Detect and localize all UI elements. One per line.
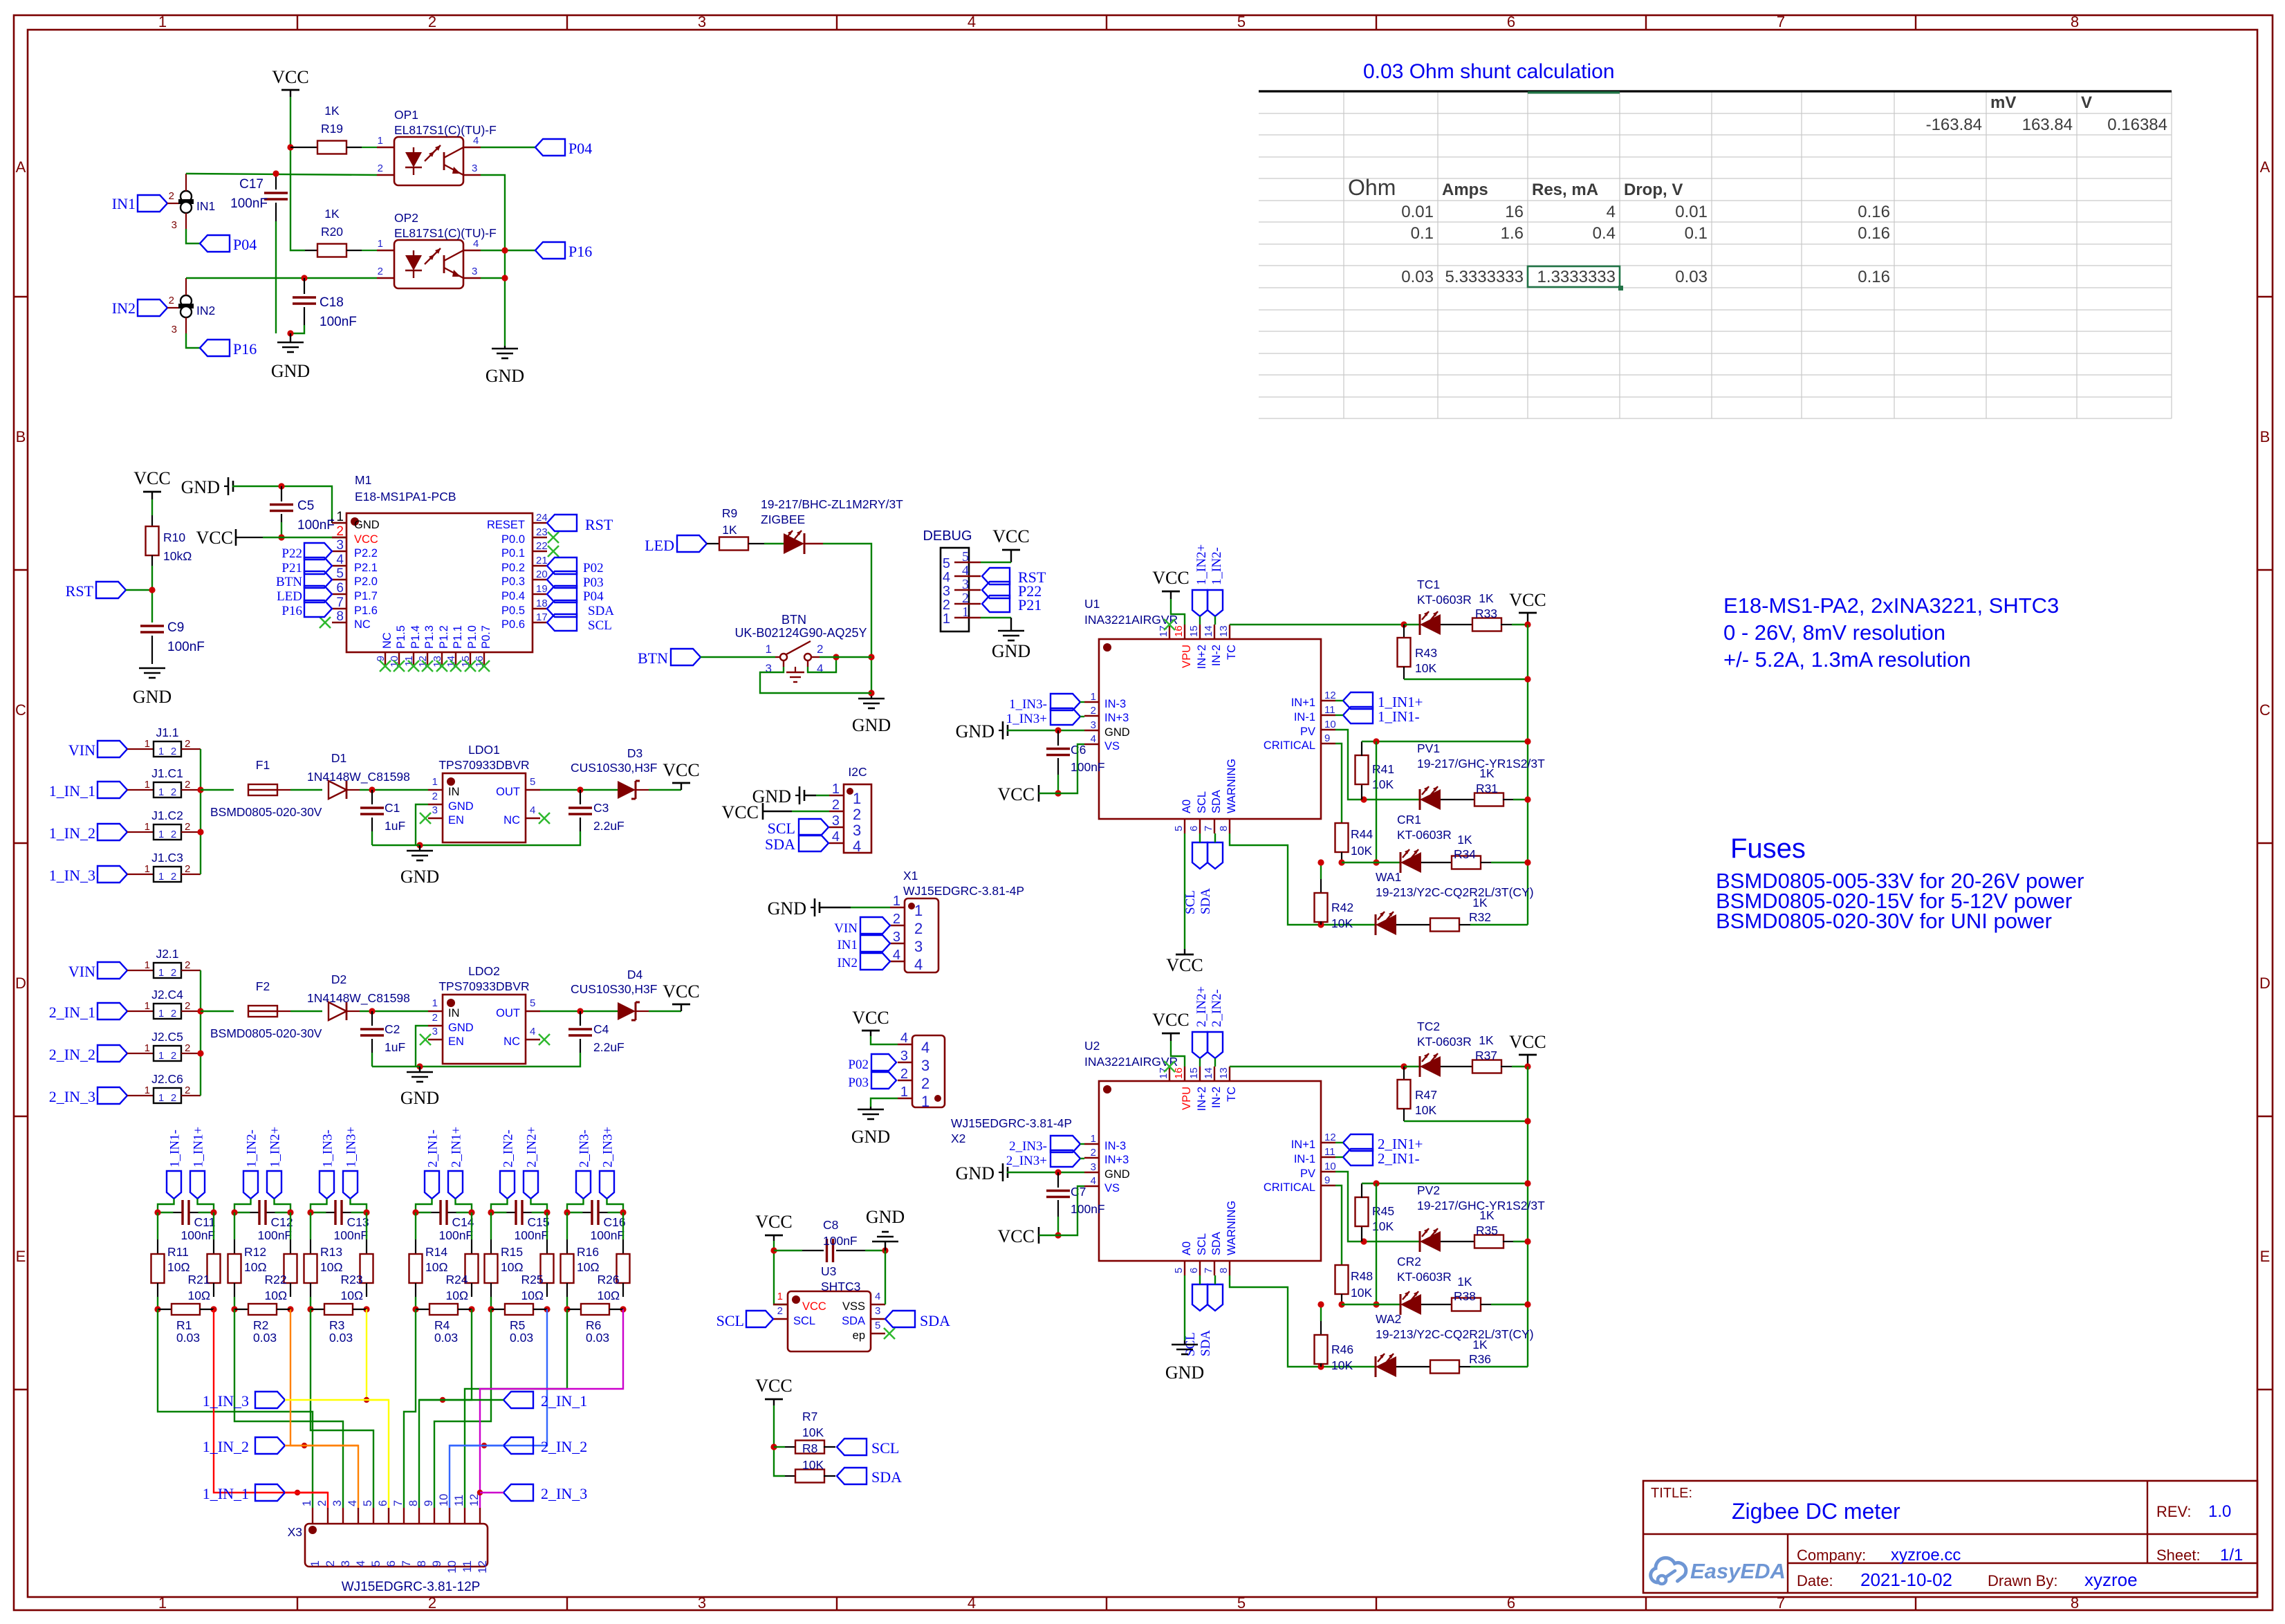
svg-text:2: 2 — [185, 821, 190, 833]
svg-text:R36: R36 — [1469, 1352, 1491, 1366]
svg-text:2: 2 — [428, 1594, 436, 1612]
svg-text:SDA: SDA — [920, 1312, 950, 1329]
svg-text:3: 3 — [893, 930, 900, 945]
svg-text:16: 16 — [1505, 203, 1524, 221]
svg-text:R33: R33 — [1475, 607, 1497, 620]
svg-text:B: B — [2260, 428, 2270, 445]
power flag VCC ladder U1 — [1509, 590, 1546, 628]
svg-text:SCL: SCL — [1196, 1233, 1208, 1255]
svg-text:1: 1 — [900, 1085, 908, 1100]
svg-text:1: 1 — [432, 997, 438, 1009]
diode D3 — [571, 746, 681, 799]
svg-text:C1: C1 — [385, 801, 400, 815]
svg-text:5: 5 — [1237, 13, 1246, 30]
svg-text:3: 3 — [432, 1026, 438, 1037]
svg-text:P16: P16 — [568, 243, 592, 260]
svg-text:GND: GND — [992, 641, 1030, 661]
wire WARNING net U1 — [1230, 833, 1375, 928]
svg-text:J1.C2: J1.C2 — [151, 809, 183, 822]
jumper IN1 — [169, 174, 216, 231]
capacitor C11 — [154, 1200, 216, 1242]
svg-text:TC2: TC2 — [1417, 1019, 1440, 1033]
svg-text:2: 2 — [817, 643, 823, 656]
svg-text:R4: R4 — [434, 1318, 450, 1332]
svg-text:1.0: 1.0 — [2208, 1502, 2231, 1521]
notes text — [1723, 593, 2059, 672]
svg-text:CR1: CR1 — [1397, 813, 1421, 827]
svg-text:1: 1 — [158, 871, 164, 883]
port 1_IN_3 — [203, 1392, 389, 1410]
svg-text:Sheet:: Sheet: — [2156, 1547, 2201, 1564]
port IN1 — [112, 195, 181, 212]
svg-text:100nF: 100nF — [181, 1228, 216, 1242]
svg-text:11: 11 — [1324, 704, 1335, 716]
wire TC net U1 — [1230, 621, 1407, 627]
resistor R23 — [341, 1212, 373, 1302]
svg-text:10: 10 — [1324, 1161, 1336, 1172]
svg-text:2: 2 — [316, 1500, 329, 1506]
ports 1_IN3- 1_IN3+ — [311, 1127, 367, 1212]
svg-text:1: 1 — [145, 1085, 150, 1096]
ports SCL SDA U1 — [1183, 833, 1223, 914]
svg-text:CUS10S30,H3F: CUS10S30,H3F — [571, 982, 657, 996]
svg-text:NC: NC — [354, 618, 371, 631]
svg-text:X1: X1 — [903, 869, 918, 883]
port IN1 X1 — [837, 935, 890, 952]
svg-text:100nF: 100nF — [1071, 1202, 1105, 1216]
svg-text:1_IN_3: 1_IN_3 — [203, 1392, 249, 1410]
svg-text:2: 2 — [893, 912, 900, 927]
svg-text:BSMD0805-020-30V for UNI power: BSMD0805-020-30V for UNI power — [1716, 909, 2052, 933]
LED CR1 KT-0603R — [1342, 813, 1452, 873]
wire output node — [540, 1008, 618, 1014]
svg-text:R37: R37 — [1475, 1049, 1497, 1062]
resistor R33 — [1472, 591, 1528, 631]
svg-text:LED: LED — [277, 589, 302, 604]
svg-text:WA2: WA2 — [1376, 1312, 1401, 1326]
svg-text:2.2uF: 2.2uF — [593, 1040, 625, 1054]
svg-text:SCL: SCL — [768, 820, 795, 837]
svg-text:7: 7 — [1777, 1594, 1785, 1612]
svg-text:PV: PV — [1300, 726, 1315, 738]
LED WA2 19-213 — [1376, 1312, 1534, 1377]
resistor R15 — [485, 1212, 524, 1309]
connector J2.C4 — [49, 988, 201, 1021]
svg-text:GND: GND — [851, 1127, 890, 1147]
svg-text:J1.C1: J1.C1 — [151, 766, 183, 780]
svg-text:OUT: OUT — [496, 1007, 520, 1019]
port P04 lower — [200, 235, 257, 253]
fuse F2 — [210, 979, 322, 1040]
svg-text:10kΩ: 10kΩ — [163, 549, 192, 563]
shunt resistor R3 — [307, 1304, 369, 1345]
svg-text:GND: GND — [448, 1022, 474, 1034]
svg-text:P1.3: P1.3 — [423, 625, 436, 649]
ports 2_IN2+ 2_IN2- — [1192, 986, 1224, 1067]
svg-text:4: 4 — [832, 829, 840, 845]
power flag VCC DEBUG — [981, 526, 1030, 562]
svg-text:0.03: 0.03 — [1675, 268, 1708, 286]
LED PV1 19-217 — [1417, 741, 1545, 810]
svg-text:IN2: IN2 — [196, 304, 215, 317]
svg-text:3: 3 — [921, 1057, 929, 1074]
svg-text:GND: GND — [271, 361, 310, 381]
svg-text:4: 4 — [1607, 203, 1616, 221]
wire to fuse F2 — [201, 1011, 234, 1012]
capacitor C5 — [270, 486, 335, 541]
gnd flag U1 — [956, 721, 1084, 741]
svg-text:OP2: OP2 — [394, 211, 418, 225]
svg-text:IN+1: IN+1 — [1291, 1138, 1315, 1151]
svg-text:1: 1 — [158, 746, 164, 757]
svg-text:CR2: CR2 — [1397, 1255, 1421, 1268]
svg-text:2_IN_3: 2_IN_3 — [541, 1485, 587, 1502]
svg-text:P22: P22 — [281, 546, 302, 561]
no-connect marks M1 — [320, 532, 559, 672]
svg-text:2: 2 — [171, 1008, 176, 1019]
svg-text:1_IN3+: 1_IN3+ — [1006, 712, 1047, 726]
wire VCC to R19/R20 — [290, 97, 305, 250]
svg-text:2021-10-02: 2021-10-02 — [1860, 1569, 1952, 1590]
svg-text:1: 1 — [962, 605, 969, 620]
svg-text:C11: C11 — [194, 1215, 216, 1229]
svg-text:SDA: SDA — [1210, 790, 1223, 813]
resistor R47 — [1398, 1067, 1531, 1125]
svg-text:VIN: VIN — [68, 963, 95, 980]
svg-text:Amps: Amps — [1442, 181, 1488, 199]
svg-text:100nF: 100nF — [591, 1228, 625, 1242]
power flag VCC LDO out — [663, 760, 699, 790]
svg-text:DEBUG: DEBUG — [923, 528, 972, 544]
power flag VCC I2C — [722, 802, 829, 822]
chip U3 SHTC3 — [773, 1264, 895, 1351]
port SDA U3 — [885, 1311, 950, 1329]
wire PV to CR vertical U1 — [1373, 741, 1379, 866]
svg-text:2: 2 — [962, 591, 969, 606]
power flag VCC R10 — [133, 468, 170, 515]
resistor R26 — [598, 1212, 630, 1302]
svg-text:2: 2 — [432, 1012, 438, 1024]
svg-text:ep: ep — [853, 1329, 865, 1342]
ground GND C8 — [866, 1207, 905, 1251]
capacitor C8 — [774, 1218, 889, 1262]
svg-text:2_IN3-: 2_IN3- — [577, 1129, 592, 1168]
svg-text:R5: R5 — [510, 1318, 525, 1332]
svg-text:-163.84: -163.84 — [1926, 116, 1982, 134]
svg-text:4: 4 — [921, 1039, 929, 1056]
svg-text:C3: C3 — [593, 801, 609, 815]
svg-text:1_IN1+: 1_IN1+ — [192, 1127, 206, 1168]
svg-text:7: 7 — [336, 596, 344, 610]
power flag VCC LDO out — [663, 981, 699, 1011]
ground GND X2 — [851, 1098, 898, 1147]
svg-text:R38: R38 — [1454, 1289, 1476, 1303]
svg-text:3: 3 — [962, 577, 969, 592]
svg-text:1K: 1K — [1457, 833, 1472, 847]
wire 2_IN_2 net blue — [450, 1309, 547, 1508]
svg-text:0.16: 0.16 — [1858, 224, 1890, 243]
port VIN X1 — [834, 917, 890, 936]
svg-text:BSMD0805-020-30V: BSMD0805-020-30V — [210, 1026, 322, 1040]
svg-text:D2: D2 — [331, 972, 346, 986]
svg-text:1N4148W_C81598: 1N4148W_C81598 — [307, 770, 410, 784]
svg-text:3: 3 — [1091, 719, 1096, 731]
wire CRITICAL net U2 — [1335, 1185, 1342, 1265]
ports 2_IN3- 2_IN3+ — [567, 1127, 623, 1212]
svg-text:10Ω: 10Ω — [598, 1289, 620, 1302]
ports 1_IN1- 1_IN1+ — [158, 1127, 214, 1212]
svg-text:1: 1 — [145, 738, 150, 750]
svg-text:C5: C5 — [297, 499, 314, 513]
svg-text:4: 4 — [893, 948, 900, 963]
svg-text:1: 1 — [777, 1291, 783, 1302]
port BTN M1 — [276, 571, 332, 589]
port P03 M1 — [547, 571, 604, 590]
svg-text:3: 3 — [339, 1560, 352, 1567]
connector J2.1 — [68, 947, 201, 980]
svg-text:10K: 10K — [1351, 1286, 1372, 1300]
svg-text:10Ω: 10Ω — [501, 1260, 524, 1274]
wire 1_IN_2 net orange — [290, 1309, 358, 1508]
svg-text:2: 2 — [185, 1085, 190, 1096]
svg-text:CUS10S30,H3F: CUS10S30,H3F — [571, 761, 657, 775]
svg-text:xyzroe: xyzroe — [2084, 1569, 2138, 1590]
svg-text:SCL: SCL — [716, 1312, 744, 1329]
svg-text:D: D — [2259, 975, 2270, 992]
svg-text:1N4148W_C81598: 1N4148W_C81598 — [307, 991, 410, 1006]
svg-text:0.16: 0.16 — [1858, 203, 1890, 221]
svg-text:Company:: Company: — [1797, 1547, 1866, 1564]
svg-text:2_IN2+: 2_IN2+ — [1194, 986, 1209, 1027]
svg-text:D1: D1 — [331, 751, 346, 765]
svg-text:11: 11 — [453, 1495, 465, 1506]
resistor R24 — [446, 1212, 479, 1302]
svg-text:NC: NC — [503, 1035, 520, 1048]
svg-text:9: 9 — [1324, 732, 1330, 744]
ports 1_IN1+ 1_IN1- — [1335, 692, 1423, 725]
svg-text:2: 2 — [171, 871, 176, 883]
wire PV net U1 — [1335, 730, 1420, 803]
svg-text:2_IN_3: 2_IN_3 — [49, 1088, 95, 1105]
svg-text:SDA: SDA — [1199, 1330, 1213, 1356]
svg-text:10: 10 — [445, 1560, 459, 1574]
wire VSS to gnd net — [885, 1251, 886, 1304]
svg-text:GND: GND — [354, 519, 380, 531]
svg-text:2_IN_1: 2_IN_1 — [541, 1392, 587, 1410]
svg-text:1_IN1-: 1_IN1- — [168, 1129, 183, 1168]
svg-text:15: 15 — [1188, 1067, 1200, 1079]
resistor R42 — [1315, 859, 1354, 930]
wire WARNING net U2 — [1230, 1275, 1375, 1370]
svg-text:CRITICAL: CRITICAL — [1264, 1181, 1315, 1194]
ports 2_IN1- 2_IN1+ — [416, 1127, 472, 1212]
svg-text:E: E — [16, 1248, 26, 1265]
svg-text:100nF: 100nF — [1071, 760, 1105, 774]
port 1_IN_1 — [203, 1484, 328, 1502]
svg-text:VCC: VCC — [802, 1300, 826, 1313]
svg-text:X3: X3 — [288, 1525, 302, 1539]
svg-text:14: 14 — [1203, 625, 1214, 637]
svg-text:R15: R15 — [501, 1245, 523, 1259]
svg-text:10K: 10K — [1372, 777, 1394, 791]
svg-text:1: 1 — [301, 1500, 313, 1506]
svg-text:0.01: 0.01 — [1675, 203, 1708, 221]
svg-text:TC1: TC1 — [1417, 578, 1440, 591]
svg-text:E18-MS1-PA2, 2xINA3221, SHTC3: E18-MS1-PA2, 2xINA3221, SHTC3 — [1723, 593, 2059, 618]
connector J2.C5 — [49, 1030, 201, 1063]
svg-text:2: 2 — [171, 1050, 176, 1062]
svg-text:0.16384: 0.16384 — [2107, 116, 2167, 134]
port P16 M1 — [281, 600, 332, 618]
svg-text:R14: R14 — [425, 1245, 447, 1259]
svg-text:VCC: VCC — [663, 981, 699, 1002]
svg-text:2_IN_2: 2_IN_2 — [541, 1438, 587, 1455]
resistor R43 — [1398, 625, 1531, 683]
resistor R22 — [265, 1212, 297, 1302]
svg-text:C2: C2 — [385, 1022, 400, 1036]
svg-text:22: 22 — [536, 540, 548, 552]
svg-text:2: 2 — [428, 13, 436, 30]
svg-text:1K: 1K — [1457, 1275, 1472, 1289]
svg-text:1: 1 — [336, 510, 344, 524]
resistor R45 — [1356, 1180, 1531, 1242]
resistor R35 — [1474, 1208, 1531, 1248]
svg-text:7: 7 — [1777, 13, 1785, 30]
svg-text:SDA: SDA — [1199, 888, 1213, 914]
svg-text:4: 4 — [968, 13, 976, 30]
port 2_IN_2 — [450, 1437, 587, 1455]
ground GND LDO — [372, 1063, 439, 1108]
svg-text:4: 4 — [530, 804, 535, 816]
svg-text:1: 1 — [1091, 691, 1096, 703]
power flag VCC U1 left — [998, 744, 1084, 804]
svg-text:R20: R20 — [321, 225, 343, 239]
capacitor C17 — [230, 170, 288, 333]
resistor R36 — [1430, 1338, 1528, 1374]
svg-text:0.03: 0.03 — [329, 1331, 353, 1345]
port 2_IN_1 — [419, 1392, 587, 1410]
svg-text:E18-MS1PA1-PCB: E18-MS1PA1-PCB — [355, 490, 456, 504]
svg-text:R24: R24 — [446, 1273, 468, 1286]
svg-text:VCC: VCC — [1152, 568, 1189, 588]
svg-text:6: 6 — [385, 1560, 398, 1567]
port RST DEBUG — [982, 568, 1046, 586]
svg-text:KT-0603R: KT-0603R — [1417, 1035, 1472, 1049]
svg-text:10K: 10K — [1331, 1358, 1353, 1372]
svg-text:19-217/BHC-ZL1M2RY/3T: 19-217/BHC-ZL1M2RY/3T — [761, 497, 903, 511]
svg-text:1: 1 — [1091, 1133, 1096, 1145]
svg-text:8: 8 — [415, 1560, 428, 1567]
capacitor C18 — [290, 275, 357, 333]
svg-text:3: 3 — [472, 163, 477, 174]
svg-text:R2: R2 — [253, 1318, 268, 1332]
port SDA I2C — [765, 835, 829, 853]
svg-text:TPS70933DBVR: TPS70933DBVR — [438, 979, 529, 993]
svg-text:8: 8 — [407, 1500, 420, 1506]
svg-text:8: 8 — [1218, 1268, 1230, 1273]
port 1_IN_2 — [203, 1437, 358, 1455]
svg-text:11: 11 — [461, 1560, 474, 1573]
svg-text:1: 1 — [943, 611, 950, 627]
LED PV2 19-217 — [1417, 1183, 1545, 1252]
svg-text:6: 6 — [1188, 1268, 1200, 1273]
svg-text:1: 1 — [145, 779, 150, 791]
svg-text:SDA: SDA — [765, 836, 795, 853]
svg-text:R8: R8 — [802, 1441, 817, 1455]
wire OP1 pin3 to GND — [481, 175, 508, 346]
svg-text:Drop, V: Drop, V — [1624, 181, 1683, 199]
svg-text:LDO1: LDO1 — [468, 743, 500, 757]
wire VCC rail U1 — [1527, 625, 1528, 925]
svg-text:9: 9 — [1324, 1174, 1330, 1186]
svg-text:6: 6 — [1507, 13, 1515, 30]
port IN2 — [112, 299, 181, 317]
svg-text:VCC: VCC — [755, 1212, 792, 1232]
port P04 right of OP1 — [481, 139, 592, 157]
svg-text:VCC: VCC — [663, 760, 699, 780]
svg-text:C9: C9 — [167, 620, 184, 635]
capacitor C9 — [140, 581, 205, 664]
svg-text:1uF: 1uF — [385, 1040, 405, 1054]
svg-text:6: 6 — [377, 1500, 389, 1506]
connector J1.C3 — [49, 851, 201, 884]
svg-text:R34: R34 — [1454, 847, 1476, 861]
svg-text:19-213/Y2C-CQ2R2L/3T(CY): 19-213/Y2C-CQ2R2L/3T(CY) — [1376, 1327, 1534, 1341]
module M1 E18-MS1PA1-PCB — [332, 473, 548, 667]
power flag VCC M1 — [196, 528, 346, 548]
gnd flag I2C — [752, 786, 829, 806]
shunt resistor R1 — [154, 1304, 216, 1345]
power flag VCC ladder U2 — [1509, 1032, 1546, 1070]
svg-text:16: 16 — [1173, 1067, 1185, 1079]
svg-text:P0.2: P0.2 — [501, 562, 525, 574]
svg-text:2: 2 — [185, 738, 190, 750]
port P21 M1 — [281, 557, 332, 575]
svg-text:2: 2 — [832, 797, 840, 813]
svg-text:P2.2: P2.2 — [354, 547, 378, 560]
svg-text:13: 13 — [1218, 1067, 1230, 1079]
svg-text:P21: P21 — [1018, 596, 1042, 613]
svg-text:3: 3 — [943, 584, 950, 599]
svg-text:D: D — [15, 975, 26, 992]
svg-text:TPS70933DBVR: TPS70933DBVR — [438, 758, 529, 772]
svg-text:F1: F1 — [256, 758, 270, 772]
svg-text:1K: 1K — [1479, 591, 1494, 605]
svg-text:PV: PV — [1300, 1168, 1315, 1180]
wire IN1 to P04 — [186, 229, 200, 243]
svg-text:IN-1: IN-1 — [1294, 1153, 1315, 1165]
power flag VCC U3 — [755, 1212, 792, 1304]
svg-text:VCC: VCC — [852, 1008, 889, 1028]
svg-text:J2.C6: J2.C6 — [151, 1072, 183, 1086]
regulator ('LDO2',) — [420, 964, 550, 1064]
svg-text:KT-0603R: KT-0603R — [1397, 828, 1452, 842]
wire IN1 net — [186, 174, 377, 175]
connector I2C — [829, 765, 871, 855]
svg-text:4: 4 — [914, 956, 923, 973]
svg-text:2: 2 — [185, 959, 190, 971]
svg-text:VCC: VCC — [992, 526, 1029, 546]
svg-text:4: 4 — [900, 1031, 908, 1046]
svg-text:0.1: 0.1 — [1411, 224, 1434, 243]
resistor R10 — [146, 515, 192, 566]
svg-text:2: 2 — [171, 746, 176, 757]
svg-text:10K: 10K — [1351, 844, 1372, 858]
svg-text:2: 2 — [336, 524, 344, 539]
svg-text:R44: R44 — [1351, 827, 1373, 841]
svg-text:R22: R22 — [265, 1273, 287, 1286]
svg-text:LED: LED — [645, 537, 674, 554]
